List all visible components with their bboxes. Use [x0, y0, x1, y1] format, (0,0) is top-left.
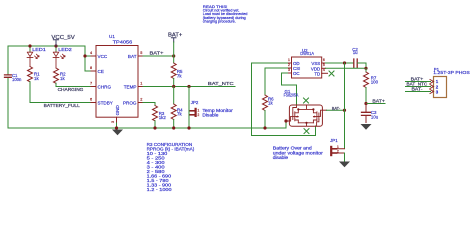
svg-text:Disable: Disable: [202, 112, 219, 117]
svg-text:BAT+: BAT+: [150, 51, 164, 56]
wire C1 bottom drop: [7, 78, 9, 129]
svg-text:GND: GND: [115, 105, 120, 116]
resistor R4: [171, 104, 176, 120]
pin U2 TD stub: [322, 72, 328, 74]
pin P1 1 arrow: [430, 80, 434, 84]
resistor R5: [171, 63, 176, 79]
pin U1 CHRG stub: [91, 86, 96, 88]
svg-text:OC: OC: [293, 71, 300, 76]
pin U1 TEMP stub: [138, 86, 143, 88]
LED LED2: [53, 52, 65, 69]
svg-text:100n: 100n: [12, 77, 22, 82]
pin U2 OD stub: [288, 62, 292, 64]
wire BAT- horizontal from G1: [323, 109, 327, 111]
svg-text:1k2: 1k2: [159, 115, 167, 120]
svg-text:1: 1: [337, 145, 339, 149]
pin P1 3 arrow: [430, 90, 434, 94]
wire ground rail to G1 left pin: [285, 121, 287, 128]
svg-text:LED2: LED2: [58, 47, 72, 52]
wire R4 bottom: [173, 120, 175, 129]
wire R1 to STDBY: [30, 82, 96, 103]
svg-text:3: 3: [288, 68, 290, 72]
IC U2 DW01A body: [292, 57, 322, 78]
svg-text:JP2: JP2: [191, 100, 199, 105]
node BAT+ C3 junction: [364, 102, 367, 105]
svg-text:6: 6: [90, 98, 92, 102]
svg-text:1: 1: [288, 58, 290, 62]
svg-text:TD: TD: [314, 71, 320, 76]
pin P1 2 arrow: [430, 85, 434, 89]
pin U1 PROG stub: [138, 102, 143, 104]
wire BAT to BAT+ column: [143, 55, 174, 57]
svg-text:7k: 7k: [177, 74, 182, 79]
svg-text:charging procedure.: charging procedure.: [203, 19, 236, 23]
jumper JP2: [190, 109, 195, 116]
wire P1 pin3 BAT-: [406, 91, 431, 93]
svg-text:2: 2: [288, 63, 290, 67]
svg-text:6: 6: [323, 58, 325, 62]
svg-text:5: 5: [323, 63, 325, 67]
wire BAT- vertical column: [344, 63, 346, 149]
svg-text:CHRG: CHRG: [98, 85, 112, 90]
svg-text:LED1: LED1: [32, 47, 46, 52]
node VCC junction: [83, 54, 86, 57]
node R6 rail junction: [263, 126, 266, 129]
supply BAT+ symbol: [171, 38, 176, 42]
wire VCC_5V top rail: [8, 45, 85, 47]
jumper JP1: [331, 147, 344, 155]
svg-text:TP4056: TP4056: [113, 40, 133, 45]
wire R6 bottom: [264, 111, 266, 129]
wire BAT+ stub right: [366, 103, 385, 105]
node U1 GND rail junction: [115, 126, 118, 129]
node JP2 rail junction: [187, 126, 190, 129]
svg-text:PROG: PROG: [123, 101, 137, 106]
svg-text:U1: U1: [109, 34, 115, 39]
node VDD R7 junction: [364, 67, 367, 70]
wire TEMP / BAT_NTC: [143, 86, 235, 88]
wire JP2 column: [188, 87, 190, 129]
node BAT+ junction: [172, 54, 175, 57]
G1 internal dual MOSFET glyphs: [286, 105, 323, 126]
wire R5 to TEMP row: [173, 79, 175, 87]
wire OC net: [282, 73, 297, 105]
wire P1 pin2 BAT_NTC: [406, 86, 431, 88]
pin U2 CSI stub: [288, 67, 292, 69]
wire VSS row to C2: [326, 62, 354, 64]
svg-text:1u: 1u: [353, 50, 358, 55]
svg-text:VCC: VCC: [98, 54, 108, 59]
wire BAT+ symbol drop: [173, 42, 175, 56]
pin U1 CE stub: [91, 70, 96, 72]
capacitor C1: [5, 75, 12, 77]
wire R4 top: [173, 87, 175, 105]
resistor R3: [153, 106, 158, 121]
no-connect X on TD: [329, 71, 334, 76]
transistor G1 FS8205A body: [289, 105, 322, 126]
svg-text:1: 1: [140, 82, 142, 86]
resistor R1: [28, 67, 33, 82]
svg-text:4: 4: [90, 51, 92, 55]
svg-text:BAT-: BAT-: [332, 106, 341, 111]
wire R2 to CHRG: [56, 83, 96, 86]
node TEMP R5 junction: [172, 85, 175, 88]
svg-text:4: 4: [323, 68, 325, 72]
annotation R3 CONFIGURATION table: [147, 142, 195, 192]
wire R3 bottom: [154, 121, 156, 128]
svg-text:TEMP: TEMP: [124, 85, 137, 90]
svg-text:BAT+: BAT+: [372, 99, 385, 104]
wire BAT+ to R5: [173, 56, 175, 63]
node R3 rail junction: [153, 126, 156, 129]
svg-text:FS8205A: FS8205A: [284, 92, 299, 97]
svg-text:VSS: VSS: [311, 61, 320, 66]
svg-text:2: 2: [198, 113, 200, 117]
capacitor C3: [365, 104, 367, 113]
pin U1 GND stub: [116, 117, 118, 123]
ground symbol at C3: [361, 124, 372, 130]
op-amp U1 TP4056 IC body: [96, 46, 138, 118]
LED LED1: [27, 52, 39, 67]
svg-text:2: 2: [337, 150, 339, 154]
wire JP1 to ground: [344, 153, 346, 162]
resistor R2: [54, 68, 59, 83]
no-connect X on G1 bottom pin: [304, 129, 309, 134]
wire ground rail: [8, 127, 286, 129]
svg-text:CHARGING: CHARGING: [58, 87, 84, 92]
wire R7 to BAT+ node: [365, 88, 367, 104]
svg-text:JP1: JP1: [330, 138, 338, 143]
svg-text:BAT-: BAT-: [412, 87, 424, 92]
wire LED1 top: [29, 46, 31, 52]
wire C2 right to VDD node: [358, 63, 367, 68]
svg-text:7k: 7k: [177, 112, 182, 117]
pin U2 VDD stub: [322, 67, 326, 69]
svg-text:CE: CE: [98, 69, 104, 74]
annotation READ THIS block: [203, 5, 248, 23]
svg-text:100: 100: [371, 80, 379, 85]
node TEMP JP2 junction: [187, 85, 190, 88]
svg-text:3: 3: [111, 121, 115, 123]
wire LED2 top: [55, 46, 57, 52]
svg-text:DW01A: DW01A: [300, 51, 314, 56]
wire CSI net to R6: [265, 68, 288, 95]
node G1 internal junctions: [297, 108, 299, 110]
pin U2 VSS stub: [322, 62, 326, 64]
no-connect X on G1 top pin: [304, 98, 309, 103]
wire VDD row: [326, 67, 367, 69]
capacitor C2: [354, 59, 357, 68]
svg-text:BAT_NTC: BAT_NTC: [208, 81, 235, 86]
wire VDD to R7: [365, 68, 367, 72]
ground symbol at JP1: [339, 162, 350, 168]
svg-text:STDBY: STDBY: [98, 101, 113, 106]
node G1 left pin junction: [284, 119, 287, 122]
pin U2 OC stub: [288, 72, 292, 74]
svg-text:BAT: BAT: [128, 54, 137, 59]
svg-text:8: 8: [90, 66, 92, 70]
pin U1 VCC stub: [91, 55, 96, 57]
annotation Battery Over/under voltage monitor disable: [273, 146, 324, 161]
wire OD net: [252, 63, 316, 136]
connector P1 body: [434, 77, 447, 98]
svg-text:5: 5: [140, 51, 142, 55]
svg-text:2: 2: [140, 98, 142, 102]
wire U1 GND to rail: [116, 123, 118, 128]
wire VCC drop to CE: [85, 46, 96, 71]
node VSS / BAT- column junction: [343, 61, 346, 64]
svg-text:10u: 10u: [371, 114, 379, 119]
svg-text:disable: disable: [273, 155, 289, 160]
wire C1 top drop: [7, 46, 9, 75]
svg-text:BATTERY_FULL: BATTERY_FULL: [44, 103, 81, 108]
wire PROG to R3: [143, 103, 155, 106]
svg-text:1.2 - 1000: 1.2 - 1000: [147, 187, 173, 192]
svg-text:1k: 1k: [268, 101, 273, 106]
svg-text:1k: 1k: [60, 76, 65, 81]
wire VCC stub: [85, 55, 96, 57]
node BAT- junction: [343, 109, 346, 112]
svg-text:1k: 1k: [34, 76, 39, 81]
svg-text:BAT+: BAT+: [168, 33, 182, 39]
svg-text:7: 7: [90, 82, 92, 86]
wire P1 pin1 BAT+: [406, 81, 431, 83]
svg-text:VCC_5V: VCC_5V: [51, 35, 75, 41]
svg-text:1.25T-3P PHOS: 1.25T-3P PHOS: [433, 70, 470, 75]
resistor R6: [263, 95, 268, 111]
node LED1 rail junction: [28, 44, 31, 47]
ground symbol at U1: [112, 130, 123, 136]
node R4 rail junction: [172, 126, 175, 129]
pin U1 BAT stub: [138, 55, 143, 57]
node LED2 rail junction: [54, 44, 57, 47]
resistor R7: [364, 72, 369, 88]
pin U1 STDBY stub: [91, 102, 96, 104]
svg-text:3: 3: [436, 89, 439, 94]
supply VCC_5V symbol: [53, 40, 58, 46]
